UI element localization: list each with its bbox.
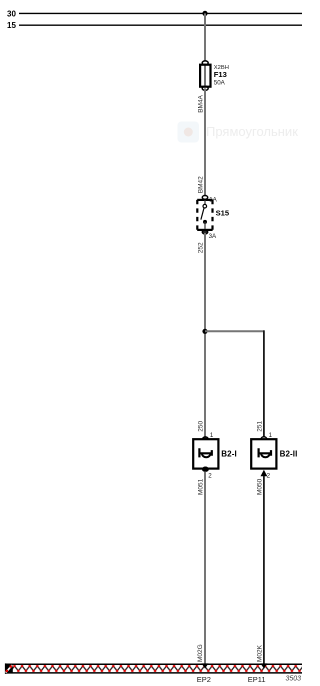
ground bus left end marker [5,664,13,674]
horn B2-II [251,437,276,476]
arrowhead at ground EP2 [202,663,209,668]
svg-text:M050: M050 [256,478,263,495]
svg-text:EP11: EP11 [248,675,266,684]
svg-text:M02K: M02K [256,644,263,662]
wire from fuse to switch [204,88,206,196]
svg-text:3503: 3503 [286,676,302,683]
arrowhead at ground EP11 [260,663,267,668]
svg-text:BM42: BM42 [197,176,204,193]
svg-text:15: 15 [7,21,16,30]
svg-text:EP2: EP2 [197,675,211,684]
junction on bus 30 [202,11,207,16]
wire from switch to horn B2-I [204,233,206,438]
fuse F13 [200,61,210,90]
svg-text:1A: 1A [209,196,217,203]
svg-text:B2-I: B2-I [221,449,237,458]
branch wire vertical to horn B2-II [263,330,265,437]
svg-text:2: 2 [267,473,271,480]
svg-text:F13: F13 [214,70,227,79]
bus wire 15 [19,24,302,26]
svg-text:2: 2 [208,473,212,480]
horn B2-I [193,437,218,472]
svg-text:3A: 3A [209,233,217,240]
svg-text:BM4A: BM4A [197,94,204,112]
svg-text:B2-II: B2-II [280,449,298,458]
svg-text:50A: 50A [214,79,226,86]
svg-text:M051: M051 [197,478,204,495]
wire from horn B2-II to ground bus [263,476,265,664]
junction node [202,329,207,334]
svg-text:251: 251 [257,420,264,431]
svg-text:252: 252 [197,242,204,253]
branch wire horizontal [205,330,265,332]
svg-text:250: 250 [197,420,204,431]
svg-text:30: 30 [7,9,16,18]
svg-text:S15: S15 [216,209,230,218]
ground bus bar [5,663,302,673]
svg-text:M02G: M02G [197,644,204,662]
wire from bus 30 to fuse [204,13,206,63]
bus wire 30 [19,12,302,14]
wire from horn B2-I to ground bus [204,472,206,665]
watermark tooltip icon [178,122,200,143]
svg-text:Прямоугольник: Прямоугольник [206,124,298,139]
switch S15 [197,196,212,235]
